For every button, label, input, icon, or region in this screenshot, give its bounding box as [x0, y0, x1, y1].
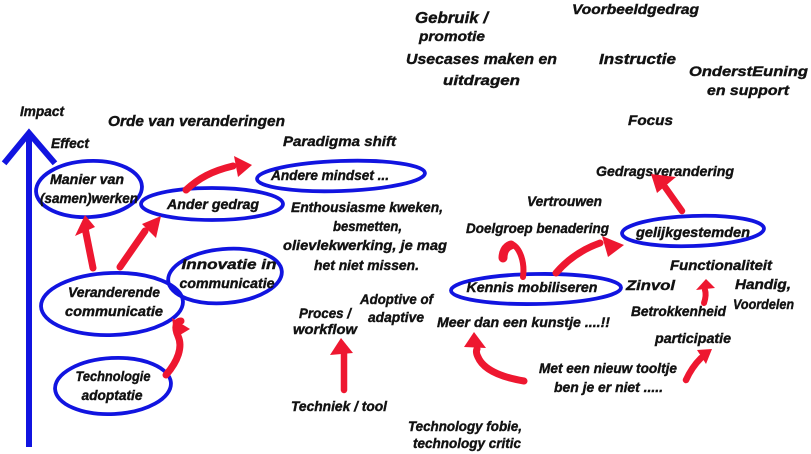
svg-text:Focus: Focus — [628, 112, 673, 128]
svg-text:Doelgroep benadering: Doelgroep benadering — [466, 220, 609, 236]
svg-text:Technology fobie,: Technology fobie, — [408, 418, 522, 434]
svg-text:Usecases maken en: Usecases maken en — [406, 51, 557, 68]
red arrow Kennis to gelijkgestemden — [556, 236, 624, 273]
svg-text:Met een nieuw tooltje: Met een nieuw tooltje — [539, 360, 677, 376]
svg-text:Meer dan een kunstje ....!!: Meer dan een kunstje ....!! — [437, 314, 610, 330]
svg-text:het niet missen.: het niet missen. — [314, 257, 419, 273]
svg-text:Technologie: Technologie — [76, 369, 151, 384]
svg-text:Andere mindset ...: Andere mindset ... — [270, 168, 389, 183]
red arrow ben je er niet to Meer dan een kunstje — [464, 332, 524, 381]
svg-text:promotie: promotie — [418, 28, 485, 44]
svg-text:Proces /: Proces / — [299, 305, 353, 321]
svg-text:Betrokkenheid: Betrokkenheid — [631, 303, 726, 319]
svg-text:Effect: Effect — [51, 135, 90, 151]
svg-text:Impact: Impact — [20, 103, 65, 119]
red arrow Techniek to Proces — [330, 338, 353, 390]
svg-text:Innovatie in: Innovatie in — [182, 257, 277, 272]
ellipse Manier van (samen)werken — [35, 158, 144, 219]
svg-text:Adoptive of: Adoptive of — [359, 291, 434, 307]
svg-text:Techniek / tool: Techniek / tool — [291, 398, 388, 414]
svg-text:(samen)werken: (samen)werken — [40, 191, 138, 206]
red arrow Ander gedrag to Andere mindset — [186, 156, 252, 190]
svg-text:OnderstEuning: OnderstEuning — [689, 63, 809, 79]
ellipse Andere mindset — [257, 158, 426, 194]
red arrow Kennis hook to Doelgroep — [503, 244, 523, 277]
svg-text:Handig,: Handig, — [735, 276, 791, 292]
svg-text:olievlekwerking, je mag: olievlekwerking, je mag — [283, 237, 447, 253]
svg-text:Paradigma shift: Paradigma shift — [283, 133, 397, 149]
svg-text:adaptive: adaptive — [368, 309, 424, 325]
svg-text:Manier van: Manier van — [50, 172, 124, 187]
svg-text:Kennis mobiliseren: Kennis mobiliseren — [467, 280, 598, 295]
red arrow Betrokkenheid to Functionaliteit — [696, 279, 715, 303]
svg-text:gelijkgestemden: gelijkgestemden — [635, 225, 750, 240]
svg-text:ben je er niet .....: ben je er niet ..... — [554, 379, 663, 395]
svg-text:technology critic: technology critic — [413, 435, 521, 451]
ellipse gelijkgestemden — [622, 214, 765, 249]
red arrow gelijkgestemden to Gedragsverandering — [651, 174, 682, 211]
svg-text:workflow: workflow — [293, 321, 358, 337]
svg-text:Zinvol: Zinvol — [625, 277, 676, 293]
svg-text:Instructie: Instructie — [599, 51, 676, 68]
svg-text:communicatie: communicatie — [180, 276, 276, 291]
svg-text:participatie: participatie — [654, 330, 731, 346]
red arrow Technologie curl up — [166, 318, 190, 375]
ellipse Ander gedrag — [141, 188, 283, 220]
red arrow Veranderende to Manier — [75, 215, 95, 268]
svg-text:adoptatie: adoptatie — [82, 388, 143, 403]
blue axis arrow — [6, 133, 53, 444]
svg-text:uitdragen: uitdragen — [443, 72, 520, 88]
ellipse Technologie adoptatie — [54, 355, 173, 417]
svg-text:Orde van veranderingen: Orde van veranderingen — [108, 113, 285, 130]
svg-text:Gebruik /: Gebruik / — [415, 10, 490, 27]
svg-text:Voorbeeldgedrag: Voorbeeldgedrag — [572, 1, 699, 17]
svg-text:communicatie: communicatie — [65, 304, 164, 319]
svg-text:Vertrouwen: Vertrouwen — [527, 193, 602, 209]
svg-text:besmetten,: besmetten, — [333, 218, 402, 234]
svg-text:Ander gedrag: Ander gedrag — [166, 197, 260, 212]
red arrow Veranderende to Ander gedrag — [120, 216, 161, 267]
svg-text:Voordelen: Voordelen — [733, 296, 794, 312]
svg-text:Functionaliteit: Functionaliteit — [670, 257, 773, 273]
ellipse Kennis mobiliseren — [451, 273, 621, 306]
red arrow to participatie — [686, 349, 712, 380]
svg-text:Veranderende: Veranderende — [68, 285, 160, 300]
svg-text:en support: en support — [707, 82, 791, 98]
ellipse Innovatie in communicatie — [166, 244, 284, 308]
ellipse Veranderende communicatie — [40, 271, 184, 338]
svg-text:Enthousiasme kweken,: Enthousiasme kweken, — [291, 199, 443, 215]
